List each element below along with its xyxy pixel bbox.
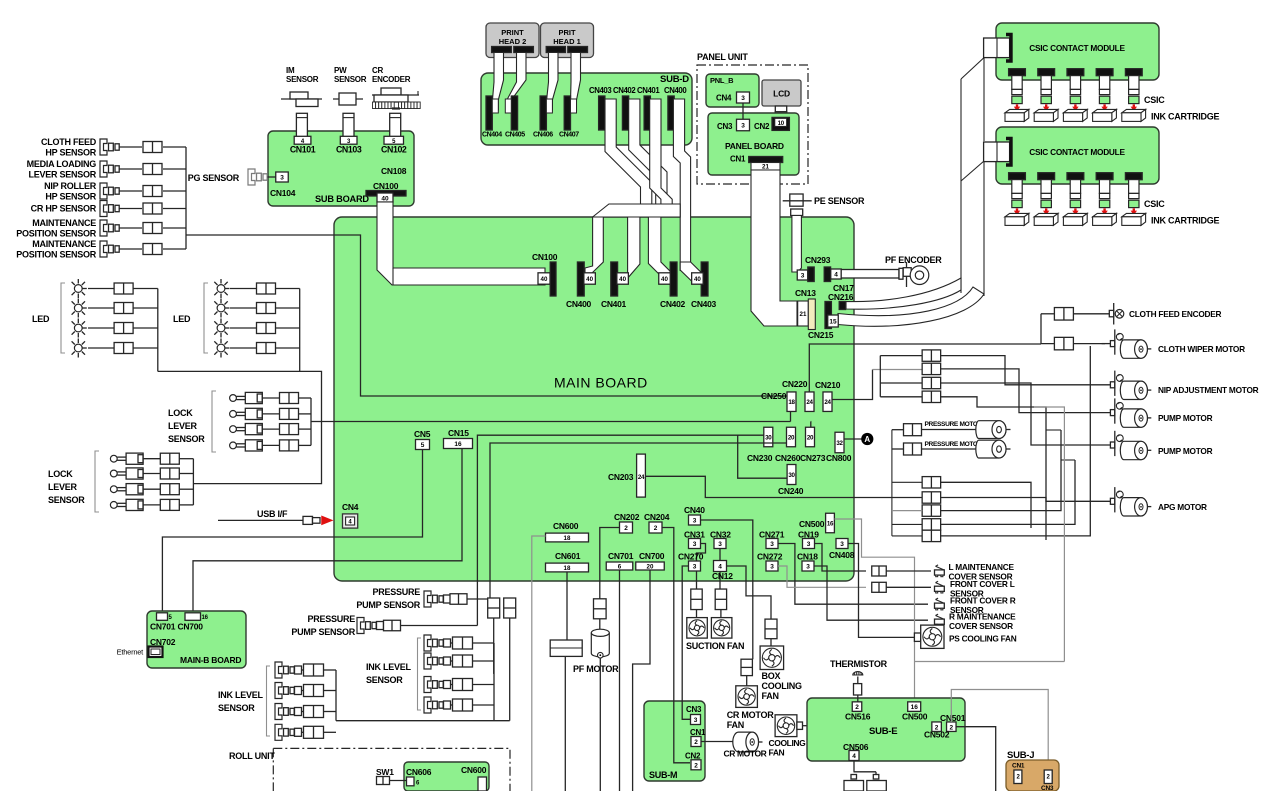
svg-text:LED: LED: [173, 314, 191, 324]
wire CN15 to MAIN-B CN700: [193, 449, 462, 612]
svg-text:CR HP SENSOR: CR HP SENSOR: [31, 204, 97, 214]
wire CN502 right: [956, 727, 996, 791]
svg-text:Ethernet: Ethernet: [117, 648, 145, 657]
svg-text:CN103: CN103: [336, 144, 362, 154]
panel unit enclosure: [697, 65, 808, 184]
wire pressure pump sensor 2 to CN230: [477, 435, 764, 625]
svg-text:3: 3: [807, 541, 811, 548]
wire lock lever group 2 bus: [192, 459, 194, 505]
ink cartridge 1 2: [1034, 109, 1058, 112]
red arrow CSIC 1 2: [1045, 104, 1047, 107]
svg-text:CN202: CN202: [614, 512, 640, 522]
svg-text:CN1: CN1: [690, 728, 706, 737]
connector CN406: [540, 96, 546, 130]
connector CN402 (SUB-D): [622, 96, 628, 130]
red arrow CSIC 2 1: [1016, 208, 1018, 211]
svg-text:PUMP MOTOR: PUMP MOTOR: [1158, 413, 1213, 423]
svg-text:INK LEVEL: INK LEVEL: [366, 662, 412, 672]
svg-text:CN270: CN270: [678, 552, 704, 562]
svg-text:3: 3: [801, 273, 805, 280]
svg-text:CN1: CN1: [730, 155, 746, 164]
motor NIP ADJUSTMENT MOTOR: [1089, 384, 1110, 386]
svg-text:SUB BOARD: SUB BOARD: [315, 194, 369, 204]
connector CN400 (main board): [577, 262, 584, 296]
svg-text:CN400: CN400: [566, 299, 592, 309]
fan COOLING FAN: [775, 715, 797, 737]
svg-text:CN273: CN273: [800, 453, 826, 463]
svg-text:PRESSURE: PRESSURE: [307, 614, 355, 624]
svg-text:POSITION SENSOR: POSITION SENSOR: [16, 229, 97, 239]
wire pair to CN260: [490, 443, 787, 598]
svg-text:CN108: CN108: [381, 166, 407, 176]
cable CN17 to PF encoder: [841, 270, 899, 279]
svg-text:THERMISTOR: THERMISTOR: [830, 659, 888, 669]
svg-text:2: 2: [949, 724, 953, 731]
svg-text:3: 3: [806, 564, 810, 571]
svg-text:4: 4: [852, 753, 856, 760]
svg-text:6: 6: [618, 563, 622, 570]
svg-text:PNL_B: PNL_B: [710, 76, 734, 85]
wire CN204 toward SUB-M: [662, 528, 674, 701]
print head PRINT HEAD 2: [486, 23, 539, 58]
red arrow CSIC 1 1: [1016, 104, 1018, 107]
wire lower stack bus: [891, 430, 893, 536]
lock lever sensor 1-3: [230, 426, 237, 433]
svg-text:3: 3: [693, 564, 697, 571]
fan SUCTION FAN 2: [715, 589, 726, 610]
board CSIC CONTACT MODULE 2: [996, 127, 1159, 184]
svg-text:CN100: CN100: [532, 252, 558, 262]
svg-text:LOCK: LOCK: [168, 408, 193, 418]
svg-text:IM: IM: [286, 66, 295, 75]
svg-text:CN220: CN220: [782, 379, 808, 389]
cable harness CSIC modules: [961, 58, 984, 79]
sensor L MAINTENANCE COVER SENSOR: [872, 566, 887, 576]
motor PUMP MOTOR 2: [1089, 444, 1110, 446]
LED 1-3: [74, 324, 82, 332]
ink level sensor R1: [424, 635, 431, 651]
svg-text:COOLING: COOLING: [762, 681, 802, 691]
wire left sensor bus: [185, 147, 187, 249]
svg-text:SUB-J: SUB-J: [1007, 750, 1034, 761]
svg-text:CN240: CN240: [778, 486, 804, 496]
svg-text:INK CARTRIDGE: INK CARTRIDGE: [1151, 216, 1219, 226]
print head PRINT HEAD 1: [541, 23, 594, 58]
svg-text:2: 2: [694, 762, 698, 769]
connector CN500 (SUB-E): [908, 702, 921, 712]
svg-text:PRESSURE MOTOR: PRESSURE MOTOR: [925, 421, 983, 428]
svg-text:CN5: CN5: [414, 429, 431, 439]
svg-text:INK LEVEL: INK LEVEL: [218, 690, 264, 700]
inline connector pair below board: [488, 598, 500, 618]
svg-text:PRINT: PRINT: [501, 28, 524, 37]
ink cartridge 2 4: [1093, 213, 1117, 216]
wire cloth feed encoder branch: [1041, 314, 1055, 344]
svg-text:ENCODER: ENCODER: [372, 75, 411, 84]
ribbon cable print head 2 to CN405: [506, 53, 526, 111]
svg-text:2: 2: [654, 525, 658, 532]
wire motor harness mesh: [941, 356, 1089, 385]
svg-text:10: 10: [778, 121, 785, 127]
connector CSIC 2 plug 3: [1067, 173, 1084, 180]
LED 2-1: [217, 285, 225, 293]
connector CN404: [486, 96, 492, 130]
lock lever sensor 2-3: [110, 486, 117, 493]
svg-text:CN516: CN516: [845, 712, 871, 722]
svg-text:CR MOTOR: CR MOTOR: [724, 749, 767, 759]
svg-text:3: 3: [770, 564, 774, 571]
svg-text:POSITION SENSOR: POSITION SENSOR: [16, 250, 97, 260]
ink cartridge 2 2: [1034, 213, 1058, 216]
svg-text:FAN: FAN: [762, 691, 779, 701]
svg-text:40: 40: [661, 276, 668, 283]
ink cartridge 1 4: [1093, 109, 1117, 112]
svg-text:HEAD 2: HEAD 2: [499, 37, 527, 46]
svg-text:COVER SENSOR: COVER SENSOR: [949, 621, 1013, 631]
fan PS COOLING FAN: [914, 633, 920, 641]
display LCD: [762, 80, 801, 106]
svg-text:18: 18: [788, 399, 795, 406]
wire LED group 1 bus: [157, 289, 159, 372]
motor PF MOTOR: [591, 633, 609, 657]
svg-text:FRONT COVER L: FRONT COVER L: [950, 579, 1015, 589]
roll unit enclosure: [273, 748, 510, 791]
svg-text:R MAINTENANCE: R MAINTENANCE: [949, 611, 1016, 621]
svg-text:A: A: [864, 435, 870, 444]
svg-text:APG MOTOR: APG MOTOR: [1158, 502, 1207, 512]
connector CN104: [276, 172, 289, 182]
svg-text:L MAINTENANCE: L MAINTENANCE: [949, 562, 1015, 572]
wire LED group 2 bus: [299, 289, 301, 372]
svg-text:PRIT: PRIT: [558, 28, 576, 37]
red arrow CSIC 2 4: [1103, 208, 1105, 211]
svg-text:3: 3: [693, 518, 697, 525]
svg-text:CN500: CN500: [902, 712, 928, 722]
svg-text:CN600: CN600: [553, 521, 579, 531]
svg-text:3: 3: [770, 541, 774, 548]
svg-text:16: 16: [202, 615, 209, 621]
svg-text:CN230: CN230: [747, 453, 773, 463]
svg-text:SENSOR: SENSOR: [218, 703, 255, 713]
svg-text:CN210: CN210: [815, 380, 841, 390]
wire CN203 to harness bus: [645, 476, 922, 497]
lock lever sensor 1-4: [230, 442, 237, 449]
ribbon band SUB-D CN402 to collector: [629, 99, 667, 205]
LED 2-2: [217, 304, 225, 312]
svg-text:PRESSURE MOTOR: PRESSURE MOTOR: [925, 441, 983, 448]
connector CN403 (main board): [701, 262, 708, 296]
connector CN103: [343, 113, 354, 139]
connector CN3 (SUB-J): [1044, 770, 1052, 784]
svg-text:LEVER: LEVER: [48, 482, 78, 492]
LED 1-2: [74, 304, 82, 312]
wire CN601 down: [566, 572, 568, 640]
svg-text:LCD: LCD: [773, 89, 790, 99]
svg-text:CN402: CN402: [660, 299, 686, 309]
svg-text:FRONT COVER R: FRONT COVER R: [950, 595, 1016, 605]
svg-text:CN606: CN606: [406, 767, 432, 777]
svg-text:CN18: CN18: [797, 552, 818, 562]
svg-text:MEDIA LOADING: MEDIA LOADING: [27, 159, 97, 169]
ribbon cable print head 2 to CN404: [492, 53, 503, 111]
wire ink level group left bus: [335, 670, 337, 721]
svg-text:PRESSURE: PRESSURE: [372, 587, 420, 597]
svg-text:CSIC CONTACT MODULE: CSIC CONTACT MODULE: [1029, 43, 1125, 53]
svg-text:HEAD 1: HEAD 1: [553, 37, 581, 46]
connector CN401 (SUB-D): [644, 96, 650, 130]
svg-text:HP SENSOR: HP SENSOR: [45, 192, 96, 202]
ink level sensor L2: [275, 683, 282, 699]
svg-text:CN104: CN104: [270, 188, 296, 198]
svg-text:CN401: CN401: [601, 299, 627, 309]
wire CN500 SUB-E loop: [915, 661, 1065, 663]
ribbon drop band to main CN401: [628, 217, 640, 277]
svg-text:3: 3: [280, 175, 284, 182]
connector CSIC 2 plug 1: [1009, 173, 1026, 180]
svg-text:CSIC: CSIC: [1144, 95, 1165, 105]
wire CN210 to motor harness: [832, 370, 873, 400]
svg-text:40: 40: [619, 276, 626, 283]
connector CN215: [825, 302, 831, 329]
board PNL_B: [706, 74, 759, 107]
wire CN18 to R maintenance cover sensor: [814, 566, 928, 620]
wire CN701 down: [619, 570, 621, 791]
wire CN700 down: [633, 570, 650, 791]
connector CSIC 1 plug 1: [1009, 69, 1026, 76]
svg-text:CN3: CN3: [686, 705, 702, 714]
LED 1-1: [74, 285, 82, 293]
ribbon band SUB-D CN401 to collector: [650, 99, 673, 205]
ribbon cable CN1 to CN13: [751, 170, 797, 326]
svg-text:CN407: CN407: [559, 132, 579, 139]
svg-text:2: 2: [624, 525, 628, 532]
sensor R MAINTENANCE COVER SENSOR: [935, 619, 945, 624]
ink cartridge 1 5: [1122, 109, 1146, 112]
ribbon band SUB-D CN403 to collector: [605, 99, 652, 205]
svg-text:SUCTION FAN: SUCTION FAN: [686, 641, 744, 651]
svg-text:FAN: FAN: [769, 748, 785, 758]
connector CN800: [835, 432, 844, 453]
svg-text:CN4: CN4: [342, 502, 359, 512]
LED 2-3: [217, 324, 225, 332]
svg-text:4: 4: [718, 564, 722, 571]
board CSIC CONTACT MODULE 1: [996, 23, 1159, 80]
wire to PF motor: [599, 619, 601, 630]
svg-text:16: 16: [827, 520, 834, 527]
ink cartridge 1 3: [1063, 109, 1087, 112]
svg-text:MAINTENANCE: MAINTENANCE: [32, 239, 96, 249]
svg-text:CLOTH FEED ENCODER: CLOTH FEED ENCODER: [1129, 309, 1222, 319]
motor CR MOTOR: [701, 741, 733, 743]
red arrow CSIC 2 5: [1133, 208, 1135, 211]
node A: [844, 438, 862, 440]
ribbon drop band to main CN400: [585, 217, 603, 274]
svg-text:CN216: CN216: [828, 292, 854, 302]
svg-text:CN400: CN400: [664, 86, 687, 95]
svg-text:PUMP SENSOR: PUMP SENSOR: [291, 627, 355, 637]
connector CN230: [764, 427, 773, 447]
connector CN100 (main board): [550, 262, 556, 296]
svg-text:40: 40: [694, 276, 701, 283]
board SUB-J: [1006, 760, 1059, 791]
wire lock lever group 1 bus: [310, 398, 312, 445]
wire CN270 to SUB-M CN3: [682, 700, 690, 719]
ink level sensor L3: [275, 704, 282, 720]
svg-text:CN15: CN15: [448, 428, 469, 438]
board PANEL BOARD: [708, 113, 799, 175]
connector CN102: [390, 113, 401, 139]
svg-text:CN203: CN203: [608, 472, 634, 482]
svg-text:CN406: CN406: [533, 132, 553, 139]
svg-text:CN701: CN701: [608, 551, 634, 561]
svg-text:CN293: CN293: [805, 255, 831, 265]
svg-text:HP SENSOR: HP SENSOR: [45, 148, 96, 158]
svg-text:SW1: SW1: [376, 767, 394, 777]
svg-text:CN402: CN402: [613, 86, 636, 95]
sensor FRONT COVER R SENSOR: [935, 603, 945, 608]
sensor PE SENSOR: [790, 194, 803, 206]
wire CN40 to CR motor fan: [701, 520, 753, 659]
wire CN506 to heaters: [853, 761, 855, 772]
ink cartridge 2 5: [1122, 213, 1146, 216]
svg-text:CN40: CN40: [684, 505, 705, 515]
svg-text:CN601: CN601: [555, 551, 581, 561]
board MAIN BOARD: [334, 217, 854, 581]
connector CSIC module 2 left plug: [984, 142, 1010, 162]
svg-text:CN260: CN260: [775, 453, 801, 463]
connector stack upper rows: [879, 356, 881, 397]
svg-text:CN401: CN401: [637, 86, 660, 95]
svg-text:CN700: CN700: [178, 622, 204, 632]
connector CLOTH WIPER MOTOR inline: [1054, 337, 1073, 350]
svg-text:CN272: CN272: [757, 552, 783, 562]
motor PUMP MOTOR 1: [1089, 412, 1110, 414]
ribbon cable print head 1 to CN406: [546, 53, 558, 111]
wire LED buses to main board: [158, 371, 322, 421]
svg-text:20: 20: [788, 434, 795, 441]
svg-text:4: 4: [834, 272, 838, 279]
svg-text:CN3: CN3: [717, 122, 733, 131]
ink level sensor R3: [424, 677, 431, 693]
svg-text:CN600: CN600: [461, 765, 487, 775]
svg-text:CN2: CN2: [754, 122, 770, 131]
svg-text:NIP ADJUSTMENT MOTOR: NIP ADJUSTMENT MOTOR: [1158, 385, 1259, 395]
svg-text:30: 30: [788, 472, 795, 479]
connector CN260: [787, 427, 796, 447]
svg-text:PS COOLING FAN: PS COOLING FAN: [949, 634, 1017, 644]
svg-text:SENSOR: SENSOR: [334, 75, 367, 84]
wire CN272 to front cover L sensor: [778, 566, 866, 587]
inline connector PF motor harness: [550, 640, 582, 656]
sensor FRONT COVER L SENSOR: [872, 582, 887, 592]
lock lever sensor 2-1: [110, 455, 117, 462]
wire CN19 to L maintenance cover sensor: [815, 544, 867, 572]
wire CN31 to suction fan 1: [697, 544, 706, 590]
svg-text:ROLL UNIT: ROLL UNIT: [229, 751, 275, 761]
board SUB-M: [644, 701, 705, 781]
svg-text:CN1: CN1: [1012, 763, 1025, 770]
svg-text:2: 2: [935, 724, 939, 731]
lock lever sensor 2-4: [110, 502, 117, 509]
svg-text:40: 40: [586, 276, 593, 283]
svg-text:CN800: CN800: [826, 453, 852, 463]
connector CN516: [852, 702, 862, 712]
LED 2-4: [217, 344, 225, 352]
svg-text:LEVER SENSOR: LEVER SENSOR: [28, 170, 96, 180]
svg-text:SUB-D: SUB-D: [660, 74, 689, 85]
svg-text:PE SENSOR: PE SENSOR: [814, 196, 865, 206]
connector LCD cable: [775, 106, 786, 112]
svg-text:SENSOR: SENSOR: [286, 75, 319, 84]
svg-text:32: 32: [836, 440, 843, 447]
svg-text:CR MOTOR: CR MOTOR: [727, 710, 775, 720]
svg-text:CLOTH WIPER MOTOR: CLOTH WIPER MOTOR: [1158, 344, 1245, 354]
svg-text:CN102: CN102: [381, 144, 407, 154]
svg-text:18: 18: [564, 535, 571, 542]
svg-text:CR: CR: [372, 66, 384, 75]
svg-text:CN700: CN700: [639, 551, 665, 561]
connector CN400 (SUB-D): [668, 96, 674, 130]
svg-text:PUMP SENSOR: PUMP SENSOR: [356, 600, 420, 610]
svg-text:40: 40: [541, 276, 548, 283]
connector stack lower rows: [922, 477, 941, 488]
wire CN500 main to SUB-E: [834, 519, 914, 702]
svg-text:30: 30: [765, 434, 772, 441]
wire ink level group right bus: [493, 643, 495, 721]
svg-text:3: 3: [693, 541, 697, 548]
connector CSIC 2 plug 5: [1125, 173, 1142, 180]
svg-text:CN500: CN500: [799, 519, 825, 529]
ribbon drop band to main CN402: [648, 217, 672, 277]
ink cartridge 2 3: [1063, 213, 1087, 216]
wire CN270 toward SUB-M: [682, 566, 688, 700]
wire ink level bottom bus: [336, 720, 510, 722]
ink level sensor L1: [275, 662, 282, 678]
svg-text:SUB-E: SUB-E: [869, 726, 897, 737]
board SUB-D: [481, 73, 692, 145]
svg-text:CN100: CN100: [373, 181, 399, 191]
svg-text:24: 24: [638, 474, 645, 481]
svg-text:18: 18: [564, 565, 571, 572]
ink level sensor L4: [275, 724, 282, 740]
svg-text:CN13: CN13: [795, 288, 816, 298]
wire PF harness down: [564, 656, 566, 791]
svg-text:SENSOR: SENSOR: [366, 675, 403, 685]
svg-text:3: 3: [840, 541, 844, 548]
svg-text:INK CARTRIDGE: INK CARTRIDGE: [1151, 112, 1219, 122]
svg-text:PG SENSOR: PG SENSOR: [188, 173, 240, 183]
connector CSIC 1 plug 4: [1096, 69, 1113, 76]
wire CN501 to SUB-J CN3: [951, 690, 1048, 771]
motor APG MOTOR: [1089, 500, 1110, 502]
svg-text:SENSOR: SENSOR: [48, 495, 85, 505]
svg-text:PW: PW: [334, 66, 347, 75]
connector CSIC 1 plug 5: [1125, 69, 1142, 76]
wire CN600 to roll unit: [532, 536, 546, 791]
svg-text:CN215: CN215: [808, 330, 834, 340]
connector CN401 (main board): [611, 262, 618, 296]
ink level sensor R4: [424, 697, 431, 713]
svg-text:CN404: CN404: [482, 132, 502, 139]
ink cartridge 2 1: [1005, 213, 1029, 216]
svg-text:LEVER: LEVER: [168, 421, 198, 431]
svg-text:CN3: CN3: [1041, 785, 1054, 791]
svg-text:FAN: FAN: [727, 720, 744, 730]
wire PF motor down: [599, 658, 601, 791]
svg-text:24: 24: [824, 399, 831, 406]
svg-text:CN12: CN12: [712, 571, 733, 581]
svg-text:PF ENCODER: PF ENCODER: [885, 255, 942, 265]
